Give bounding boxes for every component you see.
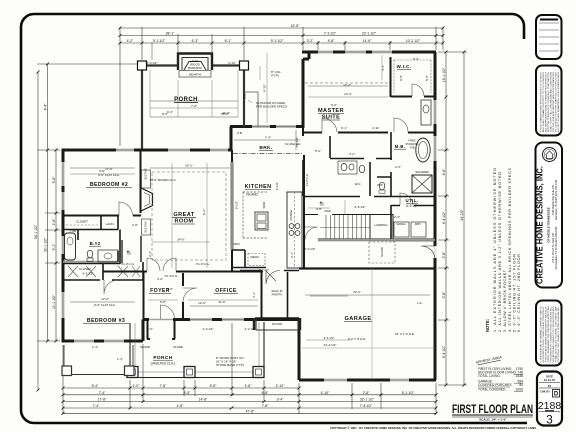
svg-text:7'-4": 7'-4" [265,136,271,140]
svg-text:28'-6": 28'-6" [221,112,229,116]
svg-text:PANTRY: PANTRY [272,293,283,297]
svg-text:7'-4": 7'-4" [99,391,107,395]
svg-text:FL.P.C.G: FL.P.C.G [305,173,309,186]
left dim line 1 [37,72,39,390]
svg-text:4'-1": 4'-1" [252,292,256,298]
svg-text:9'-2": 9'-2" [202,209,206,215]
entry alcove walls [147,321,175,339]
closet row above bedroom3 [63,262,143,280]
rear porch west wall [141,66,143,149]
bedroom3 door arc [104,280,118,294]
svg-text:CREATIVE HOME DESIGNS, INC.: CREATIVE HOME DESIGNS, INC. [536,166,545,284]
interior dim greatroom [150,167,230,169]
svg-text:8'-5": 8'-5" [184,391,192,395]
foyer/office divider [182,273,184,320]
wall jog porch SE to brk [230,127,233,151]
svg-text:LAUN.: LAUN. [106,222,115,226]
svg-text:4'-11": 4'-11" [372,126,379,130]
svg-text:BEDROOM #3: BEDROOM #3 [87,318,125,324]
svg-text:2'-6": 2'-6" [132,223,138,227]
svg-text:COPYRIGHT 1997 CREATIVE HOME D: COPYRIGHT 1997 CREATIVE HOME DESIGNS INC… [557,306,560,362]
great room west wall / built-ins [141,188,153,211]
built-in shelves [142,170,151,188]
rear corridor walls [255,271,299,319]
approx area slanted label [474,355,503,365]
rear porch east wall [243,65,245,128]
porch column NW [138,61,147,70]
svg-text:5'-0": 5'-0" [315,149,321,153]
svg-text:2'-0 1/2": 2'-0 1/2" [245,327,256,331]
top dim labels [127,24,421,43]
svg-text:COVERED PORCHES: COVERED PORCHES [478,383,512,387]
svg-text:7'-8": 7'-8" [262,404,270,408]
svg-text:W.I.C.: W.I.C. [397,64,412,69]
garage west wall [298,318,301,380]
disclaimer box upper [536,66,562,136]
svg-text:ISLAND: ISLAND [246,193,258,197]
porch interior extension lines [150,70,238,117]
svg-text:32'-1 1/2": 32'-1 1/2" [360,398,375,402]
windows bedroom3 front [74,340,124,343]
right dim line B overall [463,52,465,385]
svg-text:RANGE: RANGE [289,210,293,221]
svg-text:17'-8": 17'-8" [98,398,107,402]
bedroom2 south wall [63,215,141,217]
svg-text:(TYP.): (TYP.) [271,74,279,78]
svg-text:1. ALL EXTERIOR WALLS ARE 4": 1. ALL EXTERIOR WALLS ARE 4" UNLESS OTHE… [493,168,497,332]
stair rail [320,227,370,229]
svg-text:12'-0": 12'-0" [101,297,109,301]
wic south wall [391,96,435,98]
greatroom opening arcs [147,258,160,271]
svg-text:H.: H. [320,200,325,205]
svg-text:9'-0" FLAT CLG.: 9'-0" FLAT CLG. [98,173,120,177]
svg-text:WASH: WASH [397,222,406,226]
svg-text:4'-8": 4'-8" [245,384,253,388]
disclaimer box lower [536,301,562,366]
front windows/doors [190,318,244,321]
svg-text:1'-0": 1'-0" [133,384,141,388]
office east wall [261,271,263,320]
svg-text:KITCHEN: KITCHEN [245,184,272,190]
svg-text:4'-1": 4'-1" [381,65,385,71]
svg-text:24'-0": 24'-0" [177,238,185,242]
foyer dims [148,299,258,301]
utility room walls [391,205,435,241]
svg-text:14'-4": 14'-4" [343,83,351,87]
master suite west wall [303,52,309,128]
svg-text:4. STEEL LINTEL ABOVE ALL BRI: 4. STEEL LINTEL ABOVE ALL BRICK OPENINGS… [508,167,512,332]
svg-text:ROOM: ROOM [174,219,193,225]
bath2 toilet [87,250,93,258]
svg-text:6'-4": 6'-4" [413,57,419,61]
svg-text:14'-8": 14'-8" [199,398,208,402]
svg-text:MASTER: MASTER [318,108,344,114]
svg-text:2'-0 1/2": 2'-0 1/2" [203,327,214,331]
svg-text:3206: 3206 [516,388,524,392]
bottom dim line 5 overall [63,412,436,414]
great room tray ceiling dashed [152,172,226,260]
garage door openings [324,378,409,381]
svg-text:4'-8": 4'-8" [328,39,336,43]
svg-text:4'-6": 4'-6" [442,168,446,176]
svg-text:1'-4": 1'-4" [117,357,123,361]
svg-text:3'-4 1/2": 3'-4 1/2" [324,336,335,340]
svg-text:CHK BY: CHK BY [540,390,550,394]
garage south wall [299,379,436,382]
svg-text:6'-1": 6'-1" [290,252,294,258]
kitchen/pantry south walls [232,250,266,271]
small misc annotations [70,57,430,367]
number box [537,372,562,426]
firebox [184,62,206,71]
svg-text:5'-8": 5'-8" [442,291,446,299]
svg-text:84: 84 [519,383,523,387]
wic west wall [390,57,392,97]
svg-text:6'-9 1/2": 6'-9 1/2" [406,204,418,208]
foyer front door arc [161,305,175,319]
svg-text:COPYRIGHT © 1997 - BY CREATIVE: COPYRIGHT © 1997 - BY CREATIVE HOME DESI… [330,426,536,430]
brk north wall [230,125,303,128]
svg-text:DO NOT SCALE DRAWINGS. USE FIG: DO NOT SCALE DRAWINGS. USE FIGURED DIMS [557,71,560,132]
svg-text:10'-0" BOXED CLG.: 10'-0" BOXED CLG. [150,178,177,182]
svg-text:5'-8": 5'-8" [160,300,166,304]
foyer west wall [143,271,145,320]
svg-text:6'-7 1/2": 6'-7 1/2" [259,268,269,272]
svg-text:4'-8": 4'-8" [177,404,185,408]
svg-text:BUILT-INS: BUILT-INS [145,168,148,180]
bottom labels [92,384,415,413]
svg-text:14'-4": 14'-4" [344,92,352,96]
corridor vanity [421,100,431,125]
brk vertical dim [234,130,300,150]
svg-text:9'-6": 9'-6" [162,112,168,116]
master interior dims [308,55,388,97]
svg-text:9'-1/2": 9'-1/2" [235,201,239,209]
porch outline [130,322,264,378]
bottom dim line 3 [63,401,436,403]
svg-text:STONE BASE (TYP): STONE BASE (TYP) [216,363,244,367]
top dim line 1 [120,27,443,29]
kitchen island [287,192,302,268]
top dim line 2 [120,35,443,37]
svg-text:P.L.P.C.G.: P.L.P.C.G. [121,262,135,266]
bath2 vanity [98,250,118,262]
extension lines left [37,64,140,341]
svg-text:CLOSET: CLOSET [79,267,91,271]
svg-text:FREE: FREE [409,139,416,143]
svg-text:34'-1/2": 34'-1/2" [460,208,464,220]
utility door arc [400,193,413,205]
hearth [179,71,211,78]
svg-text:22'-1 1/2": 22'-1 1/2" [362,32,377,36]
svg-text:RAIL: RAIL [325,209,332,213]
ticks t1 [119,27,445,30]
closet rods X symbols [68,266,140,277]
svg-text:9'-8": 9'-8" [52,176,56,184]
svg-text:24'-0": 24'-0" [353,290,361,294]
svg-text:7'-3 1/2": 7'-3 1/2" [324,32,337,36]
kitchen perimeter counter dashed [243,192,268,238]
svg-text:11'-1 1/2": 11'-1 1/2" [52,294,56,309]
svg-text:SINK: SINK [262,201,266,208]
svg-text:SHOWER: SHOWER [415,170,429,174]
svg-text:47'-8": 47'-8" [246,409,255,413]
entry opening [149,318,173,321]
svg-text:REFR.: REFR. [251,255,260,259]
svg-text:28'-1": 28'-1" [166,32,175,36]
svg-text:WALK IN: WALK IN [272,289,283,293]
svg-text:19'-1/2": 19'-1/2" [295,137,299,147]
svg-text:16'-1 1/2": 16'-1 1/2" [442,67,446,82]
left terrace slab [62,345,134,376]
mbath toilets and sinks [338,161,357,174]
rear porch north wall left of fireplace [141,64,179,66]
svg-text:UTIL.: UTIL. [406,198,419,203]
door arcs [104,84,424,319]
area table [478,367,523,392]
svg-text:9'-1/2": 9'-1/2" [275,182,279,190]
slope dashed below stairs [369,242,395,263]
svg-text:2'-10": 2'-10" [276,384,285,388]
svg-text:STANDING: STANDING [405,142,418,146]
svg-text:CLOSET: CLOSET [76,220,88,224]
svg-text:HEARTH: HEARTH [189,73,201,77]
second floor edge gray band [318,239,435,241]
front porch slab [127,322,264,378]
kitchen hall door arc [305,227,318,240]
exterior wall right [434,52,437,380]
svg-text:PAN.: PAN. [234,242,241,246]
svg-text:21'-4 1/2": 21'-4 1/2" [324,343,337,347]
svg-text:BURNING: BURNING [188,66,203,70]
svg-text:12'-0": 12'-0" [198,301,206,305]
svg-text:6. 8'-0" CEILING HT. 2ND FLO: 6. 8'-0" CEILING HT. 2ND FLOOR [517,254,521,332]
svg-text:SCALE: 1/4" = 1'-0": SCALE: 1/4" = 1'-0" [479,418,507,422]
svg-text:32'-1 1/2": 32'-1 1/2" [44,237,48,252]
svg-text:DRY: DRY [415,222,421,226]
master south wall [303,128,435,136]
svg-text:4'-4 1/2": 4'-4 1/2" [442,211,446,224]
interior dim line porch [150,42,238,117]
outdoor kitchen dims [260,53,267,123]
revision dark entry [540,19,558,21]
svg-text:LANDING: LANDING [374,223,388,227]
bedroom2 interior dims [70,173,135,175]
svg-text:16'-1": 16'-1" [185,164,193,168]
svg-text:4'-0": 4'-0" [157,277,163,281]
svg-text:6'-8": 6'-8" [262,391,270,395]
svg-text:2'-0 1/2": 2'-0 1/2" [147,61,158,65]
svg-text:9'-0": 9'-0" [331,103,337,107]
svg-text:3: 3 [546,413,553,427]
porch column S-mid [184,367,195,378]
right dim line A [445,52,447,385]
svg-text:Brentwood, TN 37027 (615) 373-: Brentwood, TN 37027 (615) 373-4446 [555,179,558,220]
windows in top wall [116,149,228,152]
svg-text:SLOPE: SLOPE [173,345,183,349]
office door arc [183,288,197,302]
svg-text:PORCH: PORCH [174,97,198,103]
bottom dim line 1 [63,387,299,389]
svg-text:5'-4": 5'-4" [92,384,100,388]
left dim line 3 [55,150,57,341]
svg-text:PER BUILDER SPECS: PER BUILDER SPECS [256,105,287,109]
master ceiling line [305,82,388,84]
svg-text:6'-8": 6'-8" [399,75,403,81]
exterior wall left [62,150,65,341]
top dim line 3 [120,42,443,44]
svg-text:8'-10": 8'-10" [263,84,267,92]
svg-text:GREAT: GREAT [173,212,194,218]
company box [536,143,563,288]
svg-text:9'-8": 9'-8" [99,169,105,173]
hall/greatroom south wall [103,271,232,273]
page border top-right stub [512,14,524,39]
right labels rotated [442,67,464,358]
svg-text:OFFICE: OFFICE [215,288,237,294]
svg-text:BRK.: BRK. [259,145,272,151]
svg-text:Murfreesboro, TN 37130 (615) 8: Murfreesboro, TN 37130 (615) 890-2464 [555,226,558,270]
mbath garden tub [416,138,430,162]
svg-text:2'-8": 2'-8" [52,218,56,226]
washer dryer [394,222,409,237]
svg-text:GARAGE: GARAGE [345,316,372,322]
svg-text:8'-4": 8'-4" [44,103,48,111]
svg-text:BUILT-INS: BUILT-INS [145,221,148,233]
extension lines top [120,27,443,146]
door rear corridor [266,271,280,285]
svg-text:2538: 2538 [516,374,524,378]
svg-text:3'-2": 3'-2" [307,39,315,43]
mbath door arc [394,118,408,132]
porch column NE [240,61,249,70]
interior dim master [308,85,388,87]
svg-text:17'-6": 17'-6" [105,167,113,171]
svg-text:2'-8": 2'-8" [377,183,383,187]
revision box [536,15,562,59]
svg-text:SLOPE: SLOPE [380,247,384,257]
left dim line 2 [47,64,49,341]
flush beam brk/kitchen [233,153,303,155]
svg-text:1'-4": 1'-4" [92,345,98,349]
svg-text:FIRST FLOOR PLAN: FIRST FLOOR PLAN [452,402,533,416]
side door opening right wall [433,246,436,258]
bottom dim line 4 [63,407,436,409]
left labels rotated [34,103,56,309]
svg-text:D: D [554,392,559,398]
master suite north wall [302,51,436,54]
porch column SE [253,367,264,378]
svg-text:NOTE:: NOTE: [485,319,490,332]
svg-text:6'-1": 6'-1" [341,126,347,130]
svg-text:3. ALLOW 4" BRICK POCKET: 3. ALLOW 4" BRICK POCKET [503,269,507,332]
windows master north [318,51,392,54]
wic door arc [412,84,424,96]
stoop [256,319,298,330]
fireplace masonry [178,54,212,71]
window brk north [252,125,296,128]
window bath2 left wall [62,236,65,254]
svg-text:B.#2: B.#2 [90,241,101,246]
hall south of bath walls [304,214,370,216]
svg-text:SLOPE: SLOPE [140,345,150,349]
office north wall [232,271,263,273]
svg-text:5'-1 1/2": 5'-1 1/2" [402,391,415,395]
hall dims [308,200,345,214]
extension lines right [438,52,467,385]
svg-text:6.B.: 6.B. [237,131,243,135]
svg-text:3'-4": 3'-4" [277,398,285,402]
svg-text:3'-6": 3'-6" [395,165,401,169]
jog foyer to bedroom3 [142,320,145,342]
svg-text:6'-9 1/2": 6'-9 1/2" [305,247,316,251]
svg-text:9'-1 1/2": 9'-1 1/2" [153,39,166,43]
svg-text:2'-8": 2'-8" [363,391,371,395]
garage interior dim lines [302,268,435,380]
svg-text:7'-4": 7'-4" [93,404,101,408]
svg-text:42'-8": 42'-8" [291,24,300,28]
wic shelving dashed [394,60,431,93]
svg-text:6' X 7' O.H.D.: 6' X 7' O.H.D. [348,337,366,341]
garage north wall [299,267,435,269]
svg-text:2'-4": 2'-4" [394,215,400,219]
svg-text:2'-4": 2'-4" [148,251,152,257]
window master right / door right [434,100,437,161]
svg-text:TOTAL COVERED: TOTAL COVERED [478,388,506,392]
svg-text:4'-10": 4'-10" [321,391,330,395]
kitchen east wall [303,155,305,268]
svg-text:7'-8": 7'-8" [160,384,168,388]
stairs treads [320,215,370,239]
svg-text:6'-1": 6'-1" [225,39,233,43]
window bedroom3 left wall [62,292,65,318]
svg-text:M.B.: M.B. [395,144,406,149]
svg-text:OF MIDDLE TENNESSEE: OF MIDDLE TENNESSEE [547,207,551,243]
svg-text:9'-1 1/2": 9'-1 1/2" [271,39,284,43]
interior dim bedroom2 [70,167,135,169]
svg-text:5. 9'-0" CEILING HT. 1ST FLO: 5. 9'-0" CEILING HT. 1ST FLOOR [513,254,517,332]
porch inner dim line2 [150,107,238,109]
svg-text:6'-8 1/2": 6'-8 1/2" [355,205,366,209]
svg-text:P.L.P.C.G: P.L.P.C.G [165,274,178,278]
bottom dim line 2 [63,394,436,396]
svg-text:16' X 7' O.H.D.: 16' X 7' O.H.D. [395,332,415,336]
svg-text:14'-6": 14'-6" [363,39,372,43]
disclaimer text columns [540,71,561,132]
svg-text:W.C.: W.C. [355,182,362,186]
svg-text:5'-1": 5'-1" [52,243,56,251]
svg-text:9'-4 1/2": 9'-4 1/2" [442,345,446,358]
cooktop [289,224,294,229]
svg-text:BEDROOM #2: BEDROOM #2 [90,182,128,188]
svg-text:10'-2 1/2": 10'-2 1/2" [406,39,421,43]
bath2 tub [65,233,76,260]
house front wall office/foyer [143,318,299,321]
svg-text:6'-3": 6'-3" [192,39,200,43]
svg-text:6'-6 1/2": 6'-6 1/2" [83,272,94,276]
master door arc [322,118,337,132]
svg-text:H.: H. [127,249,132,254]
bath2 walls [63,230,120,265]
svg-text:L.A.: L.A. [417,301,423,305]
mbath partitions [303,160,435,197]
window bedroom2 left wall [62,162,65,210]
refrigerator dashed [248,254,265,266]
svg-text:11'-6": 11'-6" [218,300,225,304]
bedroom3 front wall [62,340,144,343]
svg-text:54'-1 1/2": 54'-1 1/2" [34,224,38,239]
